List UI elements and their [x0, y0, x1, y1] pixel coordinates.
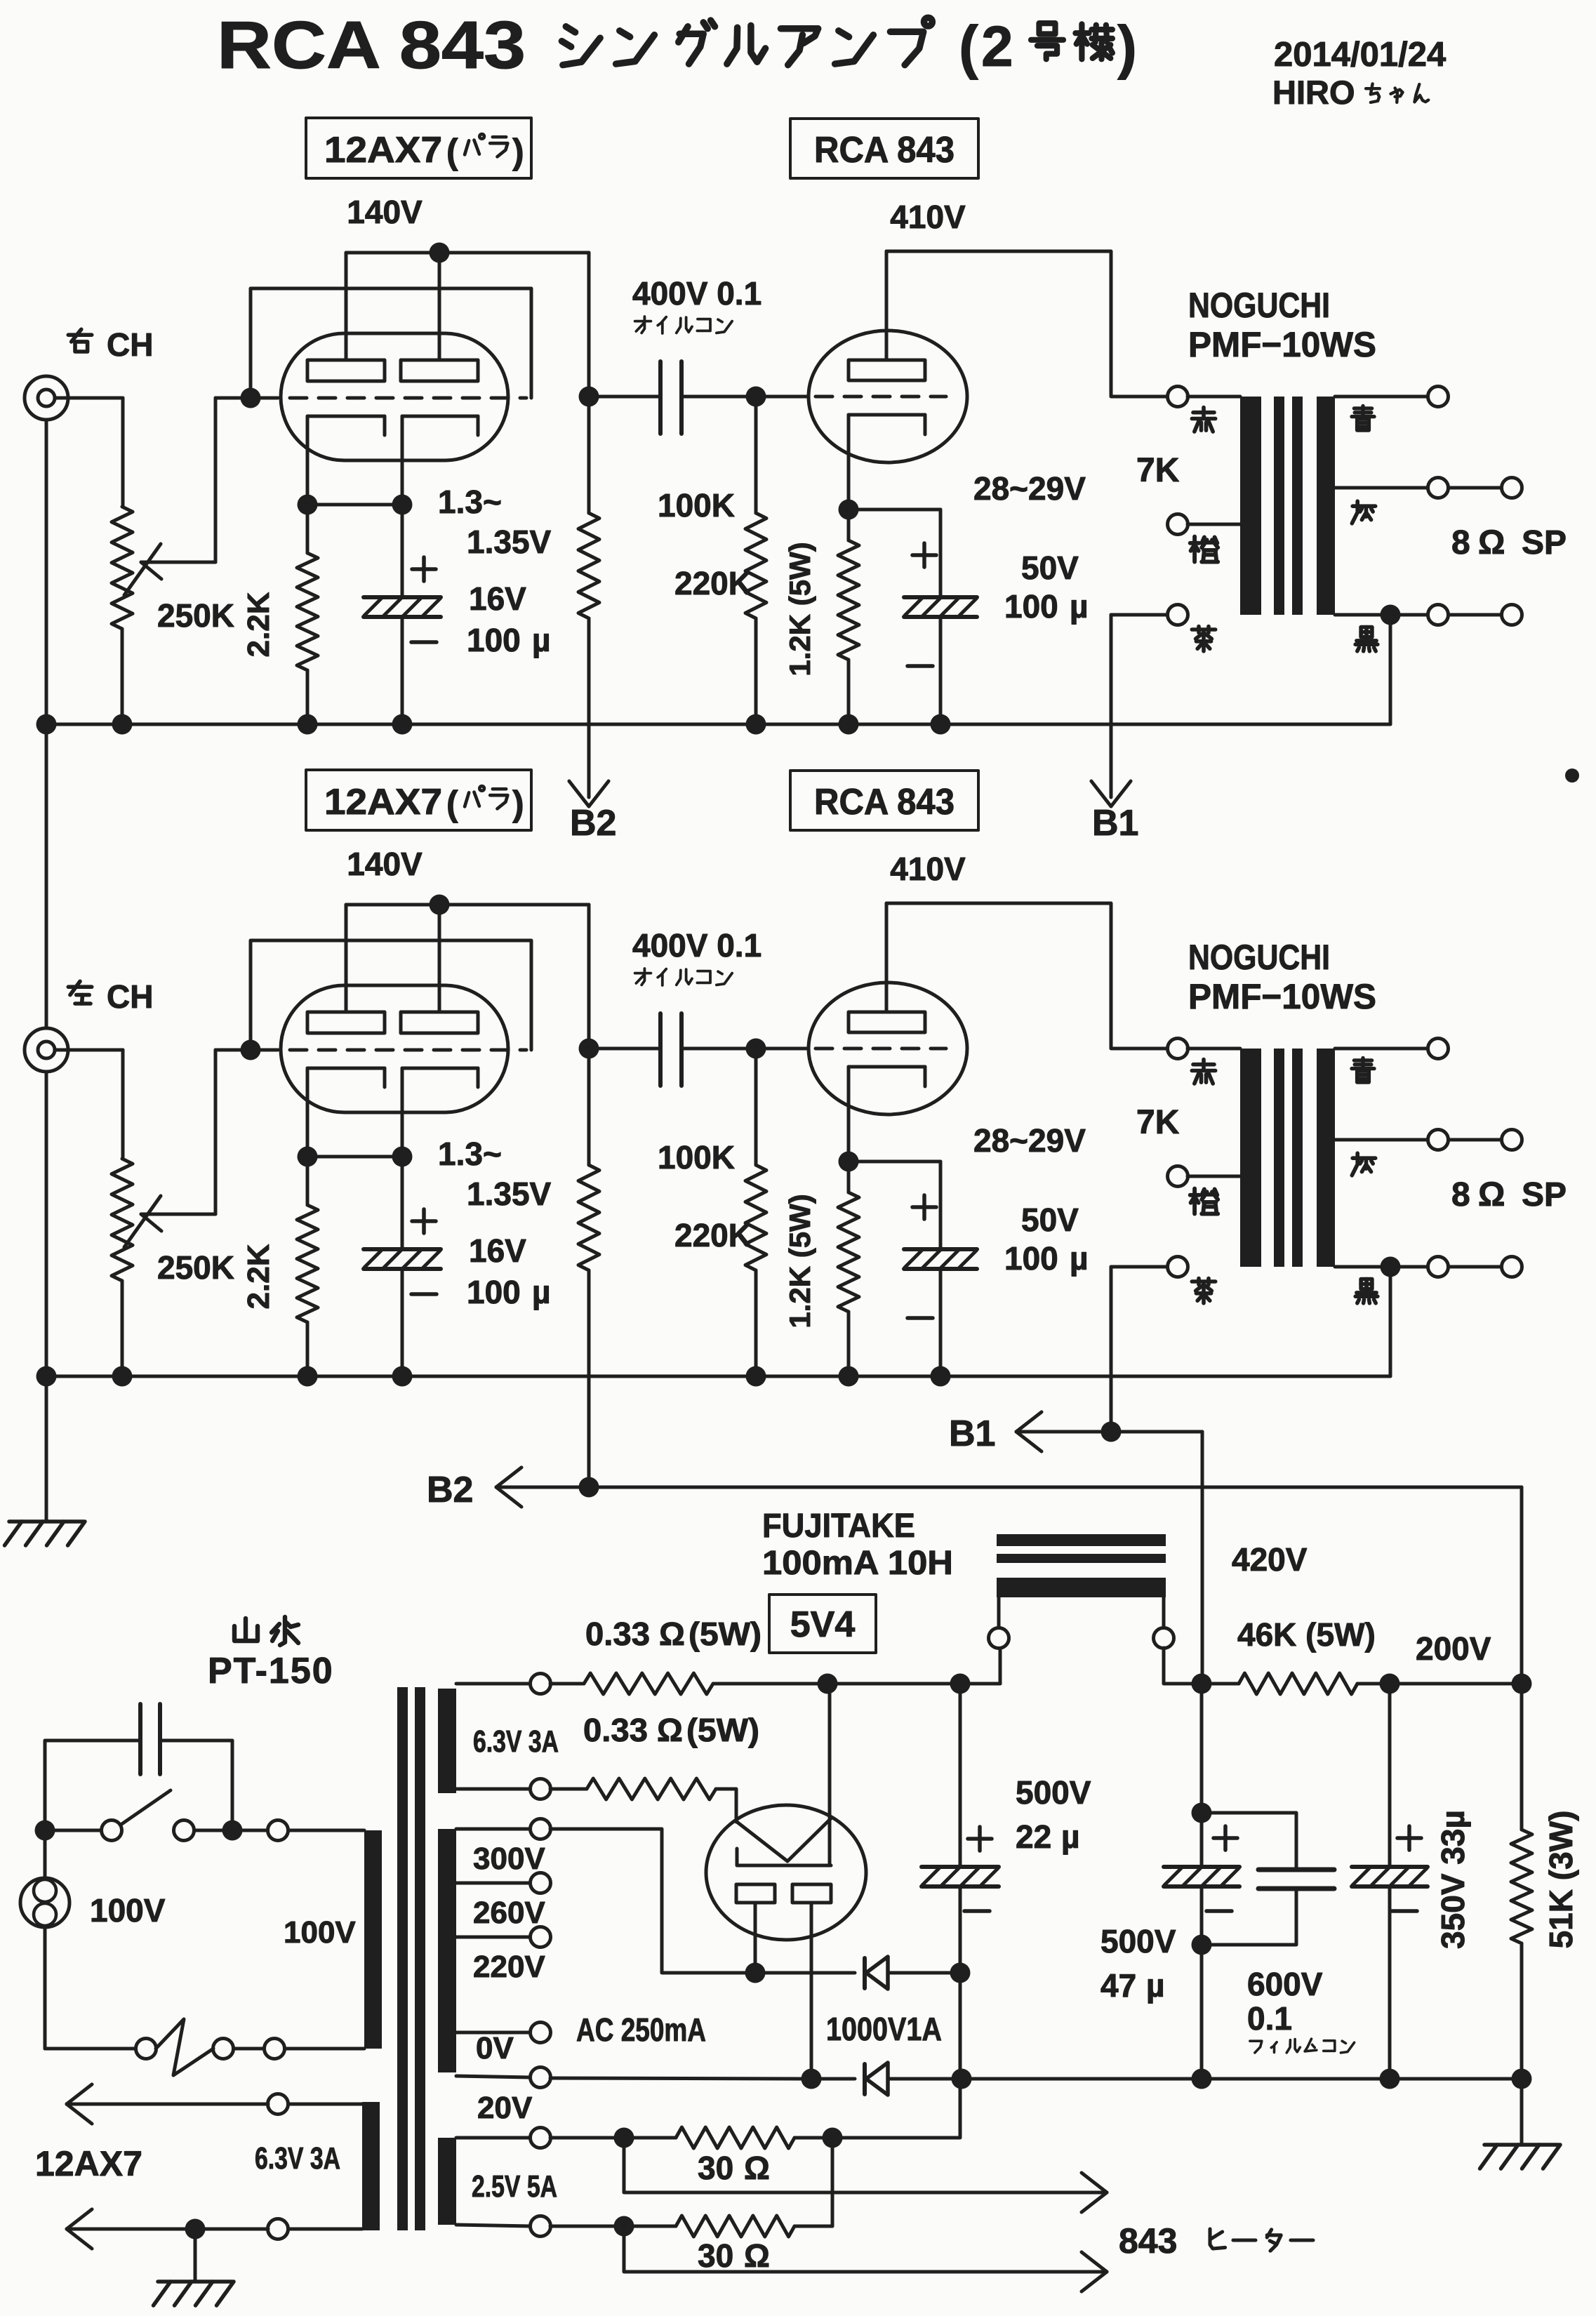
- label 12AX7 heater net: [35, 2144, 142, 2183]
- potentiometer 250K left: [112, 1050, 251, 1376]
- svg-text:2014/01/24: 2014/01/24: [1274, 36, 1446, 74]
- wire: negative rail to right: [952, 2069, 1532, 2089]
- terminal black (kuro) left: [1335, 1257, 1522, 1303]
- label 2.2K left: [241, 1244, 276, 1309]
- svg-text:30: 30: [698, 2237, 733, 2274]
- wire: 12AX7 plate bus with 140V left: [346, 895, 589, 1049]
- wire: rectifier output rail: [818, 1648, 1001, 1694]
- label 16V 100u left: [467, 1232, 551, 1310]
- label 100V mains: [90, 1892, 166, 1929]
- resistor 2.2K left: [297, 1157, 318, 1376]
- svg-text:8: 8: [1451, 524, 1470, 561]
- wire: rectified bias to 843 heater network: [842, 2079, 960, 2138]
- svg-text:PMF−10WS: PMF−10WS: [1188, 325, 1376, 364]
- label NOGUCHI PMF-10WS left: [1188, 938, 1376, 1016]
- svg-text:): ): [1117, 14, 1137, 80]
- resistor 0.33 ohm lower: [456, 1778, 736, 1822]
- fuse: [136, 2019, 234, 2075]
- svg-text:Ω: Ω: [659, 1616, 685, 1652]
- wire: 843 plate to OPT red left: [886, 903, 1167, 1049]
- label 16V 100u right: [467, 580, 551, 658]
- label 50V 100u left: [1004, 1202, 1089, 1277]
- tube RCA 843 left: [756, 903, 967, 1162]
- svg-text:22: 22: [1016, 1818, 1051, 1855]
- resistor 220K grid leak right: [745, 397, 766, 724]
- label 220K left: [674, 1217, 752, 1253]
- svg-text:220K: 220K: [674, 1217, 752, 1253]
- svg-text:350V 33µ: 350V 33µ: [1435, 1810, 1471, 1949]
- label B2 (net name): [427, 1470, 473, 1510]
- svg-text:Ω: Ω: [1478, 524, 1505, 561]
- node: 12AX7 cathode junctions right: [298, 495, 413, 515]
- label 30 ohm upper: [698, 2150, 770, 2186]
- svg-text:0V: 0V: [476, 2031, 514, 2065]
- node: 12AX7 plate output left: [579, 1039, 599, 1059]
- svg-text:µ: µ: [1070, 588, 1089, 625]
- svg-text:NOGUCHI: NOGUCHI: [1188, 938, 1330, 977]
- svg-text:8: 8: [1451, 1176, 1470, 1213]
- svg-text:µ: µ: [1061, 1818, 1080, 1855]
- label 右 CH: [68, 326, 153, 363]
- terminal 260V: [456, 1873, 551, 1931]
- svg-text:12AX7: 12AX7: [324, 782, 442, 823]
- svg-text:(5W): (5W): [689, 1616, 762, 1652]
- terminal red (aka) left: [1168, 1039, 1241, 1084]
- wire: black terminal to ground bus left: [1389, 1267, 1392, 1376]
- label box RCA 843 right: [790, 119, 978, 178]
- author label HIRO-chan: [1272, 74, 1428, 111]
- label 220K right: [674, 565, 752, 601]
- wire: 12AX7 plate bus with 140V right: [346, 243, 589, 397]
- svg-text:1000V1A: 1000V1A: [826, 2011, 942, 2047]
- svg-text:1.2K (5W): 1.2K (5W): [783, 1194, 816, 1328]
- terminal black (kuro) right: [1335, 605, 1522, 651]
- terminal blue (ao) left: [1335, 1039, 1449, 1083]
- tube 12AX7 (parallel) left: [261, 905, 526, 1157]
- capacitor 400V 0.1 oil coupling right: [589, 361, 756, 434]
- connector terminal primary bottom: [265, 2039, 285, 2059]
- svg-text:0.33: 0.33: [585, 1616, 650, 1652]
- svg-text:51K (3W): 51K (3W): [1543, 1811, 1579, 1949]
- label 2.5V 5A: [472, 2169, 557, 2204]
- svg-text:SP: SP: [1522, 1176, 1567, 1213]
- svg-text:µ: µ: [1070, 1240, 1089, 1277]
- svg-text:1.3~: 1.3~: [438, 484, 502, 520]
- svg-text:2.5V 5A: 2.5V 5A: [472, 2169, 557, 2204]
- svg-text:200V: 200V: [1416, 1630, 1491, 1667]
- svg-text:0.33: 0.33: [583, 1712, 648, 1748]
- wire: B1 feed line (left ch brown to PSU): [1016, 1267, 1202, 1684]
- svg-text:100mA 10H: 100mA 10H: [762, 1545, 953, 1582]
- svg-text:12AX7: 12AX7: [35, 2144, 142, 2183]
- resistor 1.2K 5W cathode right: [838, 510, 859, 724]
- svg-text:6.3V 3A: 6.3V 3A: [255, 2141, 340, 2176]
- svg-text:1.2K (5W): 1.2K (5W): [783, 542, 816, 676]
- node: 12AX7 cathode junctions left: [298, 1147, 413, 1167]
- wire: 843 heater feed upper with arrow: [624, 2138, 1107, 2212]
- label 28-29V left: [973, 1122, 1086, 1159]
- diode 1000V1A lower: [865, 2063, 952, 2095]
- capacitor 16V 100u left: [364, 1157, 441, 1376]
- capacitor 350V 33u: [1352, 1684, 1428, 2079]
- label B1 (net name): [949, 1413, 995, 1454]
- svg-text:B2: B2: [570, 803, 616, 844]
- wire: ground bus left: [36, 1366, 1391, 1387]
- capacitor 500V 22u: [922, 1684, 999, 2079]
- svg-text:410V: 410V: [890, 851, 966, 887]
- svg-text:0.1: 0.1: [1247, 2000, 1292, 2037]
- svg-text:7K: 7K: [1136, 452, 1180, 489]
- winding 2.5V 5A with 30 ohm hum resistors: [456, 2127, 843, 2237]
- node: 12AX7 grid junction right: [241, 388, 261, 408]
- svg-text:140V: 140V: [347, 846, 423, 882]
- terminal 0V: [456, 2023, 551, 2066]
- label 7K right: [1136, 452, 1180, 489]
- svg-text:50V: 50V: [1021, 550, 1079, 586]
- wire: ground bus right: [36, 714, 1391, 735]
- label 左 CH: [68, 978, 153, 1015]
- net B2 arrow (right ch): [569, 724, 617, 844]
- pilot lamp 100V: [20, 1830, 69, 2049]
- label 250K right: [157, 597, 234, 634]
- resistor 46K 5W: [1202, 1673, 1532, 1694]
- power transformer PT-150 windings and core: [362, 1687, 456, 2230]
- rectifier tube 5V4: [706, 1684, 866, 2079]
- svg-text:5V4: 5V4: [790, 1604, 856, 1645]
- terminal orange (dai) left: [1168, 1166, 1241, 1214]
- svg-text:(: (: [446, 784, 458, 823]
- winding 6.3V 3A for 12AX7 heaters: [67, 2084, 362, 2249]
- svg-text:Ω: Ω: [744, 2150, 770, 2186]
- node: 420V junction B1: [1192, 1674, 1212, 1694]
- svg-text:100K: 100K: [658, 487, 735, 524]
- label box 5V4: [769, 1595, 876, 1653]
- svg-text:NOGUCHI: NOGUCHI: [1188, 286, 1330, 325]
- svg-text:220K: 220K: [674, 565, 752, 601]
- label 300V: [473, 1842, 545, 1876]
- terminal brown (cha) left: [1111, 1257, 1216, 1303]
- label 100V primary: [284, 1915, 356, 1950]
- label 28-29V right: [973, 470, 1086, 507]
- svg-text:Ω: Ω: [657, 1712, 683, 1748]
- resistor 1.2K 5W cathode left: [838, 1162, 859, 1376]
- svg-text:100: 100: [467, 622, 521, 658]
- svg-text:1.3~: 1.3~: [438, 1136, 502, 1172]
- diode 1000V1A upper: [865, 1957, 952, 1989]
- terminal gray (hai) right: [1335, 478, 1522, 524]
- svg-text:6.3V 3A: 6.3V 3A: [473, 1724, 559, 1759]
- svg-text:420V: 420V: [1232, 1541, 1308, 1578]
- svg-text:100: 100: [1004, 1240, 1058, 1277]
- svg-text:100: 100: [467, 1274, 521, 1310]
- svg-text:PMF−10WS: PMF−10WS: [1188, 977, 1376, 1016]
- svg-text:1.35V: 1.35V: [467, 1176, 552, 1212]
- terminal orange (dai) right: [1168, 514, 1241, 562]
- resistor 100K plate load left: [578, 1049, 599, 1376]
- svg-text:47: 47: [1100, 1967, 1136, 2004]
- svg-text:CH: CH: [107, 326, 153, 363]
- date label: [1274, 36, 1446, 74]
- svg-text:µ: µ: [532, 622, 551, 658]
- label 500V 47u: [1100, 1923, 1176, 2004]
- svg-text:28~29V: 28~29V: [973, 1122, 1086, 1159]
- svg-text:(5W): (5W): [686, 1712, 759, 1748]
- label 46K (5W): [1237, 1616, 1376, 1653]
- tube 12AX7 (parallel) right: [261, 253, 526, 505]
- terminal brown (cha) right: [1111, 605, 1216, 651]
- svg-text:140V: 140V: [347, 194, 423, 230]
- svg-text:PT-150: PT-150: [208, 1651, 334, 1691]
- label 8 ohm SP left: [1451, 1176, 1567, 1213]
- power switch: [102, 1790, 194, 1841]
- node: 843 grid junction right: [746, 387, 766, 407]
- label box 12AX7 (para) left: [306, 770, 531, 830]
- svg-text:B1: B1: [1092, 803, 1138, 844]
- label AC 250mA: [576, 2011, 706, 2048]
- label 500V 22u: [1016, 1774, 1091, 1855]
- svg-text:16V: 16V: [469, 1232, 526, 1269]
- svg-text:100K: 100K: [658, 1139, 735, 1176]
- potentiometer 250K right: [112, 398, 251, 724]
- terminal gray (hai) left: [1335, 1130, 1522, 1176]
- svg-text:B1: B1: [949, 1413, 995, 1454]
- schematic title: RCA 843 single amplifier (unit 2): [217, 8, 1137, 83]
- svg-text:100V: 100V: [90, 1892, 166, 1929]
- capacitor 400V 0.1 oil coupling left: [589, 1013, 756, 1086]
- label 400V 0.1 oil-con right: [632, 275, 762, 333]
- output transformer NOGUCHI PMF-10WS left: [1240, 1049, 1335, 1267]
- svg-text:RCA 843: RCA 843: [217, 8, 526, 83]
- svg-text:250K: 250K: [157, 597, 234, 634]
- terminal blue (ao) right: [1335, 387, 1449, 431]
- svg-text:843: 843: [1119, 2221, 1177, 2261]
- label 200V: [1416, 1630, 1491, 1667]
- wire: B2 feed line (left ch 100K to PSU): [496, 1376, 1522, 1684]
- svg-text:30: 30: [698, 2150, 733, 2186]
- label 51K (3W) (rotated): [1543, 1811, 1579, 1949]
- svg-text:FUJITAKE: FUJITAKE: [762, 1508, 915, 1545]
- label NOGUCHI PMF-10WS right: [1188, 286, 1376, 364]
- label 420V: [1232, 1541, 1308, 1578]
- scan speck: [1565, 768, 1579, 783]
- svg-text:2.2K: 2.2K: [241, 1244, 276, 1309]
- ground symbol (heater): [154, 2282, 234, 2305]
- svg-text:2: 2: [981, 15, 1013, 79]
- svg-text:100V: 100V: [284, 1915, 356, 1950]
- label 1000V1A: [826, 2011, 942, 2047]
- label 0.33 ohm (5W) upper: [585, 1616, 762, 1652]
- svg-text:B2: B2: [427, 1470, 473, 1510]
- svg-text:7K: 7K: [1136, 1104, 1180, 1141]
- label 30 ohm lower: [698, 2237, 770, 2274]
- svg-text:500V: 500V: [1016, 1774, 1091, 1811]
- label 400V 0.1 oil-con left: [632, 927, 762, 985]
- net B1 arrow (right ch): [1091, 615, 1139, 844]
- ground symbol (input common): [5, 1522, 85, 1545]
- label 1.2K (5W) left: [783, 1194, 816, 1328]
- resistor 2.2K right: [297, 505, 318, 724]
- capacitor 50V 100u cathode bypass left: [849, 1162, 977, 1376]
- capacitor 500V 47u: [1164, 1684, 1239, 2079]
- ground symbol (PSU): [1480, 2145, 1560, 2169]
- connector terminal primary top: [268, 1821, 288, 1841]
- wire: black terminal to ground bus right: [1389, 615, 1392, 724]
- label 8 ohm SP right: [1451, 524, 1567, 561]
- label box 12AX7 (para) right: [306, 118, 531, 178]
- svg-text:(: (: [959, 14, 978, 80]
- resistor 100K plate load right: [578, 397, 599, 724]
- svg-text:CH: CH: [107, 978, 153, 1015]
- svg-text:Ω: Ω: [1478, 1176, 1505, 1213]
- label 350V 33u (rotated): [1435, 1810, 1471, 1949]
- svg-text:1.35V: 1.35V: [467, 524, 552, 560]
- label 843 heater: [1119, 2221, 1313, 2261]
- node: 12AX7 grid junction left: [241, 1040, 261, 1060]
- svg-text:400V 0.1: 400V 0.1: [632, 275, 762, 312]
- node: 843 cathode junction right: [839, 500, 859, 520]
- svg-text:RCA 843: RCA 843: [814, 782, 955, 823]
- capacitor 50V 100u cathode bypass right: [849, 510, 977, 724]
- capacitor 600V 0.1 film: [1202, 1813, 1334, 1945]
- wire: 12AX7 parallel-grid loop left: [251, 940, 531, 1050]
- label 7K left: [1136, 1104, 1180, 1141]
- label 250K left: [157, 1249, 234, 1286]
- svg-text:300V: 300V: [473, 1842, 545, 1876]
- wire: 20V tap / negative rail with diode: [456, 2068, 855, 2089]
- svg-text:): ): [512, 784, 524, 823]
- svg-text:16V: 16V: [469, 580, 526, 617]
- svg-text:SP: SP: [1522, 524, 1567, 561]
- svg-text:µ: µ: [532, 1274, 551, 1310]
- wire: left jack ground drop to main ground: [45, 420, 48, 1522]
- wire: 12AX7 parallel-grid loop right: [251, 288, 531, 398]
- wire: 300V tap to rectifier plates: [456, 1819, 855, 1983]
- label 410V left: [890, 851, 966, 887]
- svg-text:28~29V: 28~29V: [973, 470, 1086, 507]
- choke FUJITAKE 100mA 10H: [989, 1534, 1192, 1684]
- wire: AC primary top with switch: [35, 1821, 365, 1841]
- node: 843 grid junction left: [746, 1039, 766, 1059]
- output transformer NOGUCHI PMF-10WS right: [1240, 397, 1335, 615]
- winding 6.3V 3A terminals and resistor 0.33 ohm upper: [456, 1673, 827, 1694]
- label 6.3V 3A upper: [473, 1724, 559, 1759]
- svg-text:Ω: Ω: [744, 2237, 770, 2274]
- svg-text:µ: µ: [1146, 1967, 1165, 2004]
- label FUJITAKE 100mA 10H: [762, 1508, 953, 1582]
- label 600V 0.1 film-con: [1247, 1966, 1355, 2053]
- svg-text:20V: 20V: [477, 2091, 533, 2125]
- label 140V left: [347, 846, 423, 882]
- terminal red (aka) right: [1168, 387, 1241, 432]
- svg-text:400V 0.1: 400V 0.1: [632, 927, 762, 964]
- svg-text:HIRO: HIRO: [1272, 74, 1355, 111]
- label 50V 100u right: [1004, 550, 1089, 625]
- label 1.3-1.35V right: [438, 484, 552, 560]
- svg-text:50V: 50V: [1021, 1202, 1079, 1238]
- svg-text:250K: 250K: [157, 1249, 234, 1286]
- resistor 51K 3W bleeder: [1511, 1684, 1532, 2145]
- svg-text:): ): [512, 132, 524, 171]
- label 2.2K right: [241, 592, 276, 657]
- label SANSUI PT-150: [208, 1617, 334, 1691]
- capacitor 16V 100u right: [364, 505, 441, 724]
- label box RCA 843 left: [790, 771, 978, 830]
- svg-text:AC 250mA: AC 250mA: [576, 2011, 706, 2048]
- svg-text:(: (: [446, 132, 458, 171]
- wire: heater winding center to ground: [194, 2229, 197, 2282]
- capacitor line filter: [45, 1704, 232, 1830]
- terminal 220V: [456, 1927, 551, 1985]
- wire: AC primary bottom with fuse: [45, 2047, 364, 2051]
- node: 843 cathode junction left: [839, 1152, 859, 1172]
- label 0.33 ohm (5W) lower: [583, 1712, 759, 1748]
- input jack right: [25, 376, 123, 420]
- label 6.3V 3A lower: [255, 2141, 340, 2176]
- svg-text:46K (5W): 46K (5W): [1237, 1616, 1376, 1653]
- svg-text:260V: 260V: [473, 1896, 545, 1930]
- label 20V: [477, 2091, 533, 2125]
- svg-text:500V: 500V: [1100, 1923, 1176, 1959]
- tube RCA 843 right: [756, 251, 967, 510]
- wire: 843 plate to OPT red right: [886, 251, 1167, 397]
- label 140V right: [347, 194, 423, 230]
- node: 12AX7 plate output right: [579, 387, 599, 407]
- label 100K right: [658, 487, 735, 524]
- svg-text:100: 100: [1004, 588, 1058, 625]
- label 1.2K (5W) right: [783, 542, 816, 676]
- resistor 220K grid leak left: [745, 1049, 766, 1376]
- input jack left: [25, 1028, 123, 1072]
- svg-text:2.2K: 2.2K: [241, 592, 276, 657]
- svg-text:600V: 600V: [1247, 1966, 1323, 2002]
- svg-text:220V: 220V: [473, 1950, 545, 1984]
- svg-text:410V: 410V: [890, 199, 966, 235]
- label 100K left: [658, 1139, 735, 1176]
- svg-text:RCA 843: RCA 843: [814, 130, 955, 171]
- wire: 843 heater feed lower with arrow: [624, 2226, 1107, 2291]
- label 1.3-1.35V left: [438, 1136, 552, 1212]
- label 410V right: [890, 199, 966, 235]
- svg-text:12AX7: 12AX7: [324, 130, 442, 171]
